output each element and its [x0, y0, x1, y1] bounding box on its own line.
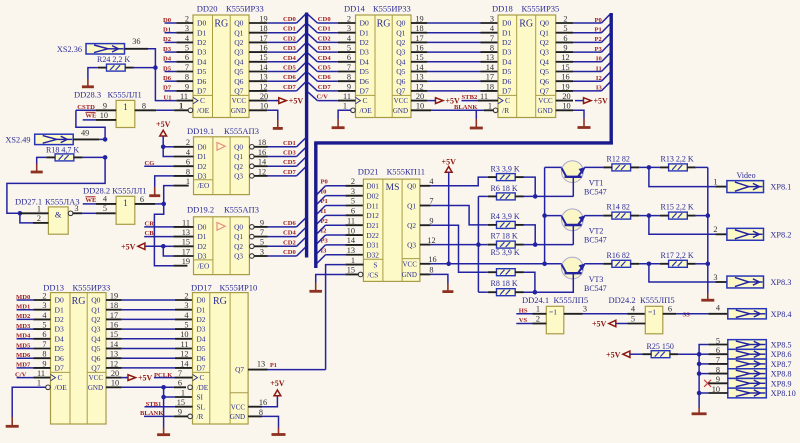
ground at DD20 GND	[267, 110, 283, 128]
svg-text:8: 8	[186, 167, 190, 176]
svg-text:MD6: MD6	[16, 352, 31, 359]
svg-text:1: 1	[488, 102, 492, 111]
junction DD17 /DE	[161, 385, 166, 390]
svg-text:2: 2	[351, 177, 355, 186]
ground at DD18 GND	[573, 110, 591, 127]
svg-text:15: 15	[561, 63, 569, 72]
wire XS2.36 pin 36 to DD20 C (net U1)	[125, 37, 177, 101]
svg-text:CD5: CD5	[283, 159, 297, 166]
svg-text:U1: U1	[164, 94, 172, 101]
wire R15 to ground rail	[696, 215, 708, 217]
svg-text:2: 2	[37, 214, 41, 223]
svg-text:D0: D0	[360, 19, 369, 28]
wire net STB1 to DD17 SL	[145, 398, 193, 408]
junction collector rail VT2	[542, 213, 547, 218]
svg-text:Q0: Q0	[540, 19, 549, 28]
svg-text:К555ЛП5: К555ЛП5	[640, 295, 675, 305]
svg-text:18: 18	[259, 24, 267, 33]
svg-text:12: 12	[259, 82, 267, 91]
svg-text:Q2: Q2	[91, 315, 100, 324]
svg-text:Q0: Q0	[234, 223, 243, 232]
svg-text:CD6: CD6	[318, 74, 332, 81]
connector XP8.4	[728, 309, 793, 319]
junction XS2.49/R18	[103, 137, 108, 142]
ground at DD21 /CS	[309, 274, 358, 291]
svg-text:К555АП3: К555АП3	[224, 204, 259, 214]
svg-text:Q1: Q1	[407, 201, 416, 210]
wire DD28.2 out pin 6 to DD19 /EO pins	[135, 186, 189, 266]
resistor R14 82	[603, 203, 639, 220]
svg-text:P0: P0	[321, 178, 329, 185]
power +5V at DD17 VCC	[248, 379, 285, 407]
wire DD28.3 out pin 8 to DD20 /OE	[135, 101, 188, 110]
svg-text:&: &	[55, 210, 62, 220]
wire to XP8.1	[649, 167, 727, 186]
power +5V at DD19.1 D0 D1	[156, 120, 193, 156]
wire DD13 outputs to DD17 inputs	[122, 291, 193, 368]
svg-text:D3: D3	[55, 325, 64, 334]
wire R5 to R8 junction	[524, 272, 535, 292]
svg-text:6: 6	[351, 207, 355, 216]
svg-text:DD19.1: DD19.1	[187, 126, 214, 136]
svg-text:8: 8	[490, 44, 494, 53]
svg-text:Q3: Q3	[91, 325, 100, 334]
svg-text:6: 6	[563, 34, 567, 43]
wire to XP8.3	[649, 264, 727, 282]
svg-text:17: 17	[110, 311, 118, 320]
svg-text:R17 2,2 K: R17 2,2 K	[661, 251, 694, 260]
svg-text:/R: /R	[197, 412, 204, 421]
svg-text:13: 13	[486, 53, 494, 62]
svg-text:D3: D3	[360, 48, 369, 57]
svg-text:GND: GND	[88, 384, 103, 392]
svg-text:6: 6	[185, 53, 189, 62]
svg-text:1: 1	[343, 102, 347, 111]
svg-text:DD14: DD14	[344, 3, 366, 13]
svg-text:6: 6	[716, 346, 720, 355]
wire DD13 GND to DD17 /DE SI and ground	[122, 387, 193, 434]
wire DD17 Q7 (net P1)	[248, 360, 326, 370]
svg-text:19: 19	[182, 257, 190, 266]
svg-text:D2: D2	[198, 162, 207, 171]
svg-text:18: 18	[110, 301, 118, 310]
svg-text:1: 1	[713, 177, 717, 186]
power +5V at DD24.2 pin 5	[592, 314, 645, 328]
resistor R15 2,2 K	[660, 203, 696, 220]
svg-text:9: 9	[103, 101, 107, 110]
svg-text:16: 16	[110, 321, 118, 330]
svg-text:Q7: Q7	[396, 87, 405, 96]
connector XS2.49	[5, 134, 73, 144]
svg-text:VCC: VCC	[231, 403, 246, 411]
svg-text:13: 13	[182, 228, 190, 237]
wire R12 to R13	[639, 166, 660, 168]
svg-text:D5: D5	[55, 344, 64, 353]
svg-text:6: 6	[140, 195, 144, 204]
svg-text:D6: D6	[360, 77, 369, 86]
svg-text:2: 2	[347, 14, 351, 23]
wire DD24.2 out (net SS) to XP8.4	[663, 304, 728, 319]
svg-text:1: 1	[123, 198, 128, 208]
wire net BLANK to DD18 /R	[454, 104, 493, 111]
svg-text:P3: P3	[594, 46, 602, 53]
wire XS2.49 pin 49	[73, 128, 105, 139]
svg-text:D6: D6	[502, 77, 511, 86]
svg-text:Q5: Q5	[540, 67, 549, 76]
svg-text:I0: I0	[596, 56, 603, 63]
svg-text:15: 15	[415, 53, 423, 62]
svg-text:CD3: CD3	[283, 45, 297, 52]
transistor VT3 BC547	[562, 257, 584, 279]
svg-text:20: 20	[111, 369, 119, 378]
svg-text:R24 2,2 K: R24 2,2 K	[97, 55, 130, 64]
svg-text:К555ИР33: К555ИР33	[73, 282, 111, 292]
svg-text:3: 3	[184, 301, 188, 310]
svg-text:14: 14	[415, 63, 424, 72]
svg-text:CD4: CD4	[283, 55, 297, 62]
svg-text:16: 16	[561, 73, 569, 82]
svg-text:D7: D7	[163, 85, 172, 92]
svg-text:GND: GND	[393, 107, 408, 115]
power +5V at DD18 VCC	[575, 97, 608, 106]
svg-text:CD4: CD4	[283, 230, 297, 237]
svg-text:2: 2	[563, 14, 567, 23]
svg-text:11: 11	[347, 216, 355, 225]
wire CSTD net down to DD27.1 inputs	[7, 157, 105, 223]
svg-text:D0: D0	[197, 296, 206, 305]
connector XP8.1	[727, 181, 791, 193]
wire net PCLK to DD17 C	[154, 369, 193, 388]
svg-text:11: 11	[37, 369, 45, 378]
svg-text:CD1: CD1	[283, 26, 296, 33]
register DD18 К555ИР35	[480, 3, 573, 117]
svg-text:14: 14	[258, 158, 267, 167]
svg-text:+5V: +5V	[121, 242, 136, 251]
wire R4 to R7 junction	[524, 225, 535, 245]
register DD14 К555ИР33	[338, 3, 431, 117]
svg-text:18: 18	[258, 138, 266, 147]
svg-text:13: 13	[259, 73, 267, 82]
svg-text:8: 8	[142, 101, 146, 110]
svg-text:D21: D21	[366, 221, 379, 230]
svg-text:Q1: Q1	[396, 28, 405, 37]
svg-text:Q2: Q2	[540, 38, 549, 47]
svg-text:8: 8	[185, 73, 189, 82]
svg-text:R16 82: R16 82	[607, 251, 630, 260]
svg-text:BC547: BC547	[584, 187, 607, 196]
svg-text:Q0: Q0	[396, 19, 405, 28]
svg-text:13: 13	[257, 360, 265, 369]
svg-text:2: 2	[185, 14, 189, 23]
svg-text:К555ЛЛ1: К555ЛЛ1	[108, 90, 142, 100]
junction Q3/I vertical	[476, 242, 481, 247]
svg-text:5: 5	[103, 204, 107, 213]
svg-text:6: 6	[186, 158, 190, 167]
wire R7 row to VT2 base	[524, 244, 573, 246]
svg-text:15: 15	[347, 266, 355, 275]
svg-text:MD7: MD7	[16, 362, 31, 369]
svg-text:3: 3	[74, 204, 78, 213]
svg-text:10: 10	[562, 102, 570, 111]
junction +5V VCC	[446, 262, 451, 267]
svg-text:11: 11	[181, 340, 189, 349]
svg-text:C: C	[200, 373, 205, 382]
svg-text:Q4: Q4	[91, 334, 100, 343]
svg-text:D2: D2	[163, 36, 172, 43]
svg-text:MD0: MD0	[16, 294, 31, 301]
svg-text:+5V: +5V	[592, 320, 607, 329]
svg-text:+5V: +5V	[594, 97, 609, 106]
svg-text:D5: D5	[197, 344, 206, 353]
svg-text:Q6: Q6	[234, 77, 243, 86]
svg-text:P2: P2	[321, 218, 329, 225]
svg-text:10: 10	[111, 379, 119, 388]
svg-text:C: C	[363, 96, 368, 105]
svg-text:D1: D1	[197, 28, 206, 37]
buffer DD19.1 К555АП3	[186, 126, 306, 194]
svg-text:C/V: C/V	[15, 371, 27, 378]
svg-text:3: 3	[347, 24, 351, 33]
svg-text:19: 19	[415, 14, 423, 23]
svg-text:7: 7	[490, 34, 494, 43]
svg-text:5: 5	[347, 44, 351, 53]
svg-text:1: 1	[181, 388, 185, 397]
svg-text:8: 8	[429, 266, 433, 275]
svg-text:D4: D4	[55, 334, 64, 343]
svg-text:9: 9	[716, 375, 720, 384]
wire DD18 outputs P0-P3 I0-I3 to bus	[573, 14, 610, 91]
svg-text:CD7: CD7	[283, 169, 297, 176]
svg-text:Q5: Q5	[396, 67, 405, 76]
svg-text:12: 12	[415, 82, 423, 91]
svg-text:D6: D6	[163, 75, 172, 82]
svg-text:D1: D1	[360, 28, 369, 37]
resistor R25 150	[630, 342, 699, 358]
svg-text:+5V: +5V	[156, 120, 171, 129]
svg-text:SI: SI	[197, 393, 204, 402]
svg-text:Q7: Q7	[91, 364, 100, 373]
svg-text:P1: P1	[594, 27, 601, 34]
wire feed rail XP8.5-XP8.10	[699, 345, 708, 408]
svg-text:R12 82: R12 82	[607, 154, 630, 163]
resistor R5 3,9 K	[488, 248, 524, 276]
junction DD19.1 D0	[161, 145, 166, 150]
svg-text:XP8.1: XP8.1	[770, 183, 791, 192]
svg-text:I1: I1	[321, 208, 327, 215]
svg-text:D7: D7	[197, 364, 206, 373]
svg-text:Q1: Q1	[234, 152, 243, 161]
svg-text:CD0: CD0	[283, 249, 297, 256]
svg-text:D11: D11	[366, 201, 379, 210]
svg-text:D2: D2	[360, 38, 369, 47]
svg-text:8: 8	[347, 73, 351, 82]
svg-text:Q0: Q0	[234, 19, 243, 28]
svg-text:D31: D31	[366, 241, 379, 250]
svg-text:DD17: DD17	[191, 282, 212, 292]
wire DD14 outputs to DD18 inputs	[427, 14, 498, 91]
svg-text:9: 9	[42, 359, 46, 368]
svg-text:2: 2	[184, 291, 188, 300]
svg-text:К555ИР33: К555ИР33	[226, 3, 264, 13]
svg-text:R8 18 K: R8 18 K	[491, 279, 518, 288]
svg-text:5: 5	[631, 314, 635, 323]
register DD13 К555ИР33	[15, 282, 122, 424]
wire DD17 Q7 to DD21 S	[326, 265, 364, 370]
svg-text:19: 19	[259, 14, 267, 23]
svg-text:18: 18	[486, 82, 494, 91]
svg-text:9: 9	[178, 408, 182, 417]
svg-text:10: 10	[347, 226, 355, 235]
wire R13 to ground rail	[696, 166, 708, 168]
svg-text:Video: Video	[737, 171, 756, 180]
wire VT2 emitter to R14	[584, 215, 603, 217]
junction DD19.2 D2	[161, 244, 166, 249]
wire DD21 VCC row to VT collectors	[430, 167, 561, 263]
svg-text:Q3: Q3	[234, 172, 243, 181]
svg-text:XP8.3: XP8.3	[770, 278, 791, 287]
svg-text:+5V: +5V	[606, 350, 621, 359]
svg-text:DD18: DD18	[492, 3, 513, 13]
svg-text:P1: P1	[321, 198, 328, 205]
svg-text:К555АП3: К555АП3	[224, 126, 259, 136]
svg-text:49: 49	[81, 128, 89, 137]
resistor R8 18 K	[488, 279, 524, 296]
svg-text:18: 18	[415, 24, 423, 33]
junction R5/R8	[533, 290, 538, 295]
svg-text:Q4: Q4	[234, 57, 243, 66]
svg-text:RG: RG	[377, 19, 391, 30]
svg-text:SL: SL	[197, 402, 206, 411]
svg-text:Q7: Q7	[540, 87, 549, 96]
svg-text:Q3: Q3	[540, 48, 549, 57]
svg-text:C: C	[200, 96, 205, 105]
svg-text:CD7: CD7	[283, 84, 297, 91]
svg-text:20: 20	[416, 92, 424, 101]
resistor R7 18 K	[488, 232, 524, 249]
svg-text:VCC: VCC	[402, 261, 417, 269]
svg-text:13: 13	[347, 246, 355, 255]
svg-text:RG: RG	[214, 19, 228, 30]
power +5V at DD19.2 D2 D3	[121, 242, 193, 256]
svg-text:Q3: Q3	[234, 252, 243, 261]
svg-text:CD4: CD4	[318, 55, 332, 62]
ground at R18	[36, 164, 38, 173]
svg-text:VCC: VCC	[538, 97, 553, 105]
wire R14 to R15	[639, 215, 660, 217]
svg-text:/EO: /EO	[198, 261, 210, 270]
svg-text:R25 150: R25 150	[647, 342, 674, 351]
junction rail XP8.10	[697, 391, 702, 396]
wire DD21 Q3 to R7 row	[430, 244, 487, 246]
svg-text:3: 3	[490, 14, 494, 23]
svg-text:I1: I1	[596, 65, 602, 72]
svg-text:XP8.8: XP8.8	[771, 370, 792, 379]
wire termination rail right	[707, 167, 709, 293]
ground at DD19.1 D3	[149, 176, 193, 196]
svg-text:5: 5	[351, 197, 355, 206]
junction R4/R7	[533, 242, 538, 247]
svg-text:Q3: Q3	[407, 240, 416, 249]
svg-text:Q7: Q7	[235, 365, 244, 374]
junction rail R17	[706, 262, 711, 267]
svg-text:R4 3,9 K: R4 3,9 K	[491, 212, 520, 221]
svg-text:D1: D1	[198, 152, 207, 161]
svg-text:/OE: /OE	[55, 383, 68, 392]
svg-text:К555ИР35: К555ИР35	[522, 3, 560, 13]
svg-text:12: 12	[427, 236, 435, 245]
svg-text:I2: I2	[596, 75, 603, 82]
power +5V at DD14 VCC	[427, 97, 460, 106]
svg-text:6: 6	[178, 379, 182, 388]
svg-text:MD1: MD1	[16, 304, 30, 311]
svg-text:К555ЛП5: К555ЛП5	[554, 295, 589, 305]
svg-text:20: 20	[260, 92, 268, 101]
svg-text:D7: D7	[55, 364, 64, 373]
svg-text:5: 5	[42, 321, 46, 330]
svg-text:Q4: Q4	[396, 57, 405, 66]
svg-text:/EO: /EO	[198, 181, 210, 190]
svg-text:15: 15	[110, 330, 118, 339]
svg-text:D02: D02	[366, 191, 379, 200]
svg-text:D2: D2	[502, 38, 511, 47]
svg-text:D2: D2	[197, 315, 206, 324]
svg-text:D3: D3	[197, 48, 206, 57]
wire bus to DD14 inputs CD0-CD7	[308, 14, 338, 100]
svg-text:Q5: Q5	[234, 67, 243, 76]
svg-text:D3: D3	[163, 46, 172, 53]
svg-text:D4: D4	[197, 334, 206, 343]
svg-text:14: 14	[110, 340, 119, 349]
svg-text:R13 2,2 K: R13 2,2 K	[661, 154, 694, 163]
svg-text:D7: D7	[502, 87, 511, 96]
svg-text:D0: D0	[198, 223, 207, 232]
svg-text:3: 3	[351, 187, 355, 196]
svg-text:D2: D2	[55, 315, 64, 324]
svg-text:3: 3	[185, 24, 189, 33]
svg-text:13: 13	[415, 73, 423, 82]
ground at DD13 /OE	[6, 387, 46, 426]
svg-text:5: 5	[184, 321, 188, 330]
wire DD27.1 out pin 3 to DD28.2 pin 5	[73, 204, 116, 213]
svg-text:DD19.2: DD19.2	[187, 204, 214, 214]
junction collector rail VT3	[542, 262, 547, 267]
svg-text:MD3: MD3	[16, 323, 31, 330]
svg-text:DD24.1: DD24.1	[522, 295, 549, 305]
power +5V at DD20 VCC	[267, 97, 303, 106]
svg-text:11: 11	[182, 218, 190, 227]
svg-text:D12: D12	[366, 211, 379, 220]
power +5V at DD13 VCC	[122, 374, 153, 383]
svg-text:XP8.10: XP8.10	[771, 389, 796, 398]
svg-text:VT3: VT3	[589, 275, 604, 284]
wire net STB2 to DD18 C	[462, 94, 499, 101]
svg-text:D7: D7	[360, 87, 369, 96]
svg-text:D0: D0	[502, 19, 511, 28]
svg-text:P3: P3	[321, 238, 329, 245]
transistor VT2 BC547	[562, 209, 584, 231]
svg-text:CD2: CD2	[318, 35, 332, 42]
svg-text:2: 2	[536, 314, 540, 323]
resistor R6 18 K	[488, 184, 524, 200]
svg-text:9: 9	[260, 218, 264, 227]
svg-text:12: 12	[561, 53, 569, 62]
svg-text:D6: D6	[197, 77, 206, 86]
svg-text:R5 3,9 K: R5 3,9 K	[491, 248, 520, 257]
svg-text:/OE: /OE	[360, 106, 373, 115]
svg-text:6: 6	[668, 305, 672, 314]
svg-text:P2: P2	[594, 36, 602, 43]
connector block XP8.5-XP8.10	[708, 336, 795, 398]
